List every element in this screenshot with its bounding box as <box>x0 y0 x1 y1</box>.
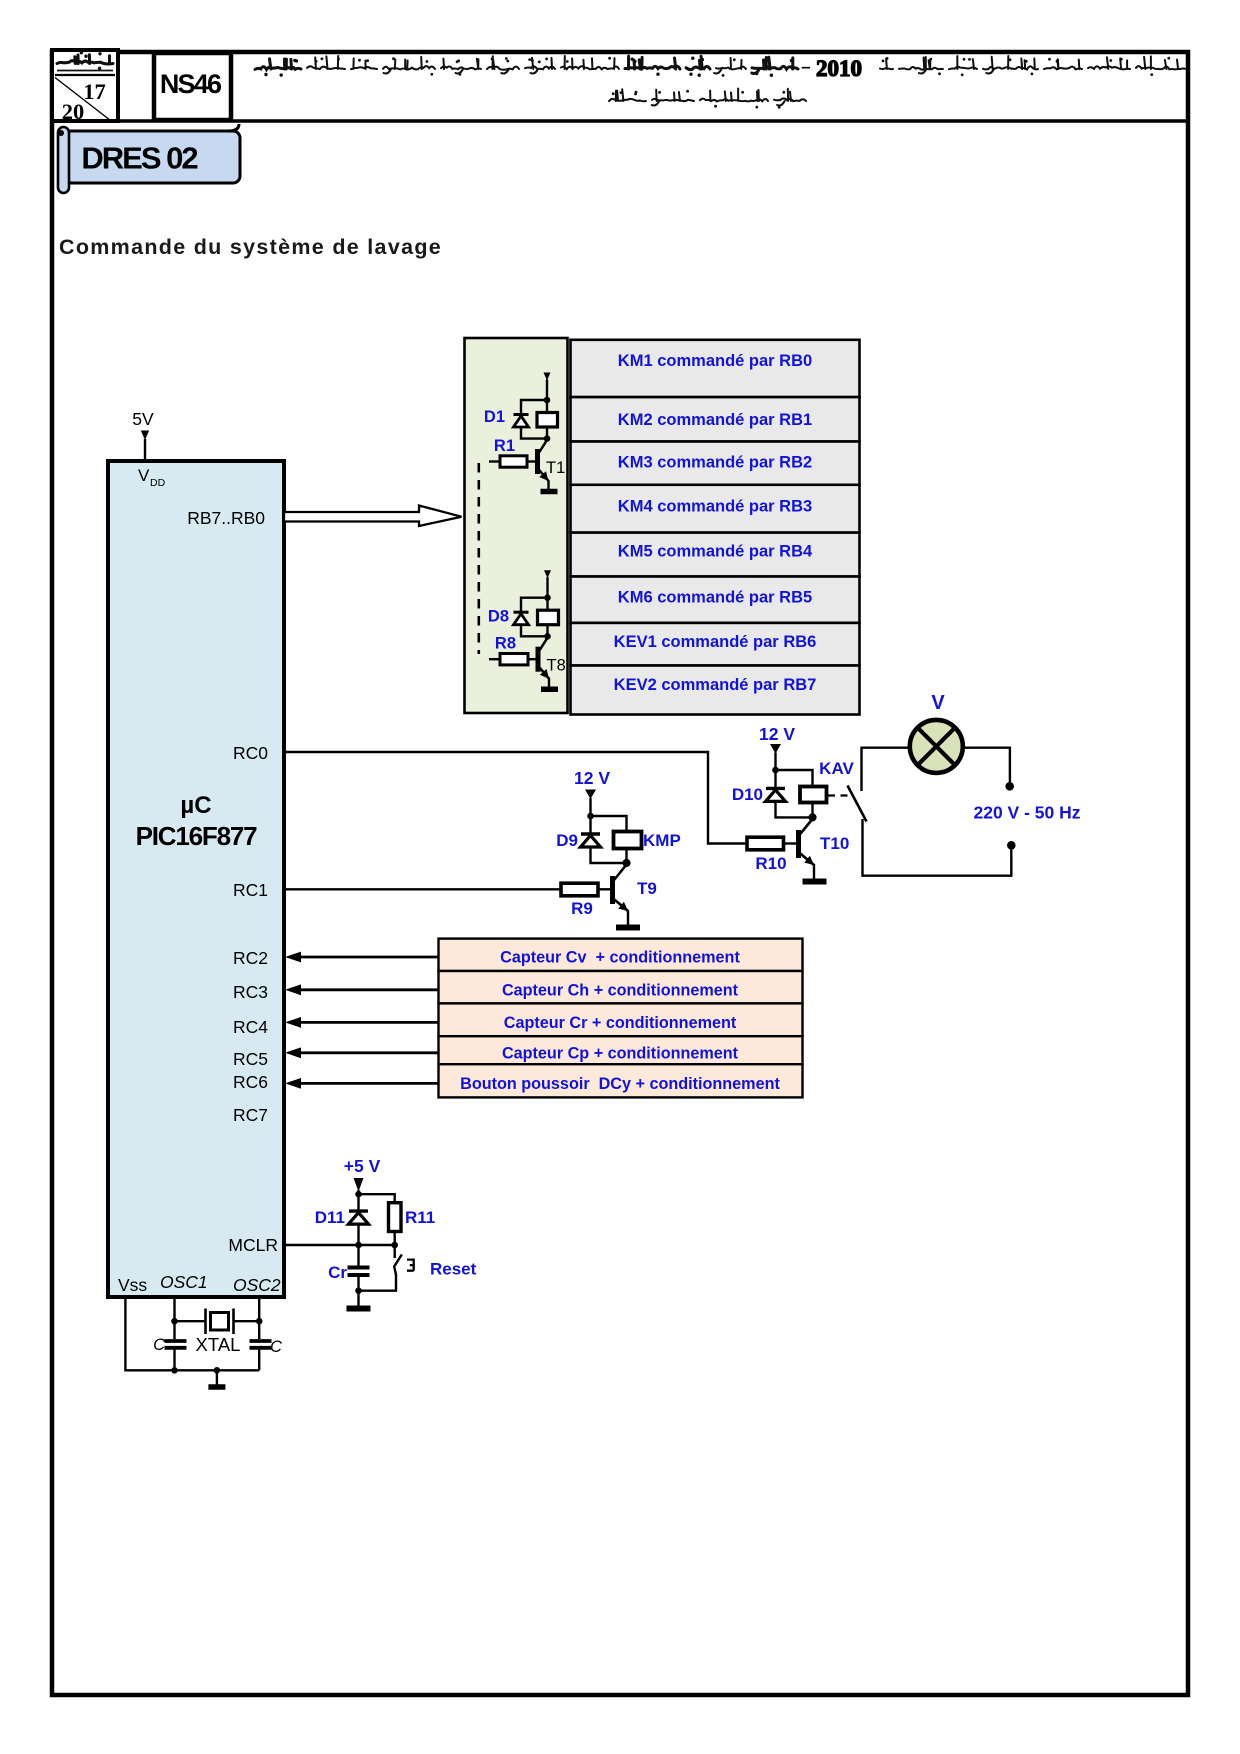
node above coil KEV <box>544 594 551 601</box>
relay coil KMP <box>614 832 642 849</box>
svg-text:RC3: RC3 <box>233 982 268 1002</box>
svg-text:T9: T9 <box>637 879 657 898</box>
relay coil KAV <box>800 787 827 803</box>
exam code box NS46 <box>154 53 231 120</box>
dashed bus continuation <box>477 463 480 654</box>
svg-text:RC6: RC6 <box>233 1072 268 1092</box>
lamp V <box>910 720 963 773</box>
banner DRES 02 <box>228 124 239 131</box>
emitter wire and ground T9 <box>627 910 629 925</box>
wire arrow to RC4 <box>299 1021 439 1024</box>
sensor box 4 <box>439 1036 803 1064</box>
svg-text:OSC2: OSC2 <box>233 1275 281 1295</box>
svg-text:Reset: Reset <box>430 1260 477 1279</box>
svg-text:KM6 commandé par RB5: KM6 commandé par RB5 <box>618 588 812 606</box>
svg-text:DRES 02: DRES 02 <box>81 141 197 176</box>
wire D11 anode to MCLR node <box>357 1223 359 1245</box>
relay table row KEV1 <box>571 623 860 666</box>
relay table row KM2 <box>571 397 860 441</box>
svg-text:MCLR: MCLR <box>228 1235 278 1255</box>
emitter wire and ground T8 <box>548 678 550 689</box>
resistor R9 <box>561 883 598 896</box>
wire Vss down <box>125 1297 164 1370</box>
wire arrow to RC2 <box>299 956 439 959</box>
supply arrow cell1 <box>544 373 551 381</box>
svg-text:DD: DD <box>150 477 166 489</box>
svg-text:12 V: 12 V <box>574 768 610 788</box>
reset switch <box>394 1245 396 1258</box>
crystal XTAL <box>175 1320 206 1322</box>
bus arrow RB7..RB0 <box>284 506 462 527</box>
relay table row KM1 <box>571 340 860 397</box>
supply arrow 12V KMP <box>585 790 596 800</box>
wire Cr bottom to ground <box>357 1275 359 1306</box>
sensor box 2 <box>439 971 803 1003</box>
resistor R1 <box>489 460 500 462</box>
wire arrow to RC5 <box>299 1051 439 1054</box>
wire RC0 to R10 <box>285 752 747 844</box>
node Cr bottom <box>355 1287 362 1294</box>
node 12V KAV <box>772 767 779 774</box>
node coil/collector KAV <box>808 813 816 821</box>
svg-text:RC5: RC5 <box>233 1049 268 1069</box>
relay coil KEV <box>538 610 559 625</box>
node OSC2 <box>256 1318 263 1325</box>
node OSC1 <box>171 1318 178 1325</box>
svg-text:KAV: KAV <box>819 759 854 778</box>
diode D8 <box>514 611 529 614</box>
relay table row KEV2 <box>571 666 860 715</box>
svg-text:Capteur Cr + conditionnement: Capteur Cr + conditionnement <box>504 1014 737 1032</box>
wire arrow to RC6 <box>299 1082 439 1085</box>
svg-text:Capteur Cp + conditionnement: Capteur Cp + conditionnement <box>502 1044 739 1062</box>
diode D10 <box>774 770 776 788</box>
transistor T10 <box>796 830 801 858</box>
svg-text:KMP: KMP <box>643 831 681 850</box>
node 12V KMP <box>587 813 594 820</box>
svg-text:RC4: RC4 <box>233 1017 268 1037</box>
wire RC1 to R9 <box>285 888 561 890</box>
svg-text:D9: D9 <box>556 831 578 850</box>
supply arrow cell2 <box>544 570 551 578</box>
wire lamp left to switch <box>862 748 910 791</box>
svg-text:KEV2 commandé par RB7: KEV2 commandé par RB7 <box>614 676 817 694</box>
terminal lower 220V <box>1007 841 1016 850</box>
svg-text:R8: R8 <box>495 635 516 653</box>
wire node to diode D8 <box>521 598 548 612</box>
node coil/collector cell2 <box>544 633 551 640</box>
svg-text:D1: D1 <box>484 408 505 426</box>
diode D1 <box>514 413 529 416</box>
svg-text:T1: T1 <box>546 459 565 477</box>
svg-text:–: – <box>801 57 810 76</box>
svg-text:C: C <box>270 1338 282 1356</box>
wire D9 anode to node <box>591 847 625 863</box>
node ground stem <box>214 1367 221 1374</box>
ground reset <box>347 1306 371 1312</box>
svg-text:Commande du système de lavage: Commande du système de lavage <box>59 235 442 259</box>
svg-text:T10: T10 <box>820 834 849 853</box>
transistor T8 <box>536 647 541 672</box>
svg-text:D10: D10 <box>732 785 763 804</box>
wire lamp right to terminal <box>963 748 1010 783</box>
page number box <box>52 50 118 121</box>
svg-text:NS46: NS46 <box>160 69 222 99</box>
wire OSC1 down <box>173 1297 175 1339</box>
supply arrow +5V <box>354 1178 364 1192</box>
svg-text:KEV1 commandé par RB6: KEV1 commandé par RB6 <box>614 633 817 651</box>
sensor box 5 <box>439 1064 803 1097</box>
svg-text:µC: µC <box>180 792 211 819</box>
svg-text:D8: D8 <box>488 608 509 626</box>
wire D8 anode to node <box>521 624 546 637</box>
node above coil KM1 <box>544 397 551 404</box>
svg-text:KM2 commandé par RB1: KM2 commandé par RB1 <box>618 411 812 429</box>
svg-text:Vss: Vss <box>118 1275 147 1295</box>
resistor R11 <box>389 1203 402 1232</box>
resistor R8 <box>489 658 500 660</box>
relay table row KM6 <box>571 577 860 623</box>
capacitor C (OSC2) <box>250 1339 272 1343</box>
svg-text:20: 20 <box>62 99 85 124</box>
emitter wire and ground T10 <box>813 864 815 879</box>
wire node to KMP coil <box>591 816 627 832</box>
emitter wire and ground T1 <box>547 480 549 491</box>
svg-text:R1: R1 <box>494 437 515 455</box>
svg-text:V: V <box>138 466 150 485</box>
bottom wire caps <box>173 1348 175 1371</box>
wire node to KAV coil <box>776 770 813 787</box>
svg-text:PIC16F877: PIC16F877 <box>136 821 257 851</box>
svg-text:OSC1: OSC1 <box>160 1272 208 1292</box>
sensor box 1 <box>439 939 803 971</box>
svg-text:KM1 commandé par RB0: KM1 commandé par RB0 <box>618 352 812 370</box>
svg-text:Cr: Cr <box>328 1263 347 1282</box>
transistor T9 <box>610 876 615 904</box>
wire D1 anode to node <box>521 426 545 439</box>
svg-text:RC7: RC7 <box>233 1105 268 1125</box>
node MCLR/D11 <box>355 1242 362 1249</box>
svg-text:KM4 commandé par RB3: KM4 commandé par RB3 <box>618 497 812 515</box>
svg-text:Bouton poussoir DCy + conditi: Bouton poussoir DCy + conditionnement <box>460 1075 780 1093</box>
svg-text:R11: R11 <box>405 1208 435 1227</box>
wire D10 anode to node <box>776 801 811 817</box>
header arabic line 1 <box>1136 56 1186 69</box>
node +5V <box>355 1191 362 1198</box>
wire node to diode D1 <box>521 400 547 414</box>
svg-text:KM3 commandé par RB2: KM3 commandé par RB2 <box>618 453 812 471</box>
wire switch to node <box>359 1274 397 1291</box>
sensor box 3 <box>439 1003 803 1036</box>
svg-text:R9: R9 <box>571 899 593 918</box>
node bottom OSC1 <box>171 1367 178 1374</box>
node R11 bottom <box>391 1242 398 1249</box>
svg-text:Capteur Cv + conditionnement: Capteur Cv + conditionnement <box>500 949 740 967</box>
capacitor C (OSC1) <box>165 1339 187 1343</box>
header arabic line 2 <box>774 89 806 106</box>
svg-text:220 V - 50 Hz: 220 V - 50 Hz <box>974 803 1081 823</box>
ground XTAL <box>216 1370 218 1385</box>
svg-text:T8: T8 <box>547 657 566 675</box>
svg-text:12 V: 12 V <box>759 724 795 744</box>
wire MCLR <box>285 1244 359 1246</box>
svg-text:KM5 commandé par RB4: KM5 commandé par RB4 <box>618 542 813 560</box>
svg-text:XTAL: XTAL <box>196 1334 241 1355</box>
switch contact KAV <box>848 786 867 822</box>
relay table row KM5 <box>571 533 860 577</box>
svg-text:V: V <box>931 692 945 714</box>
svg-text:RC0: RC0 <box>233 743 268 763</box>
wire node to R11 top <box>359 1194 395 1203</box>
node coil/collector <box>544 435 551 442</box>
svg-text:RC2: RC2 <box>233 948 268 968</box>
transistor T1 <box>535 449 540 474</box>
svg-text:2010: 2010 <box>816 56 862 81</box>
driver block <box>465 338 568 713</box>
supply arrow 12V KAV <box>770 744 781 754</box>
terminal upper 220V <box>1005 782 1014 791</box>
dashed mechanical link KAV <box>828 794 852 796</box>
relay table row KM4 <box>571 485 860 533</box>
svg-text:5V: 5V <box>132 409 154 429</box>
svg-text:C: C <box>153 1336 165 1354</box>
svg-text:R10: R10 <box>755 854 786 873</box>
svg-text:RB7..RB0: RB7..RB0 <box>187 508 265 528</box>
svg-text:17: 17 <box>83 79 106 104</box>
diode D9 <box>589 816 591 834</box>
svg-text:RC1: RC1 <box>233 880 268 900</box>
svg-text:D11: D11 <box>315 1208 345 1227</box>
relay coil KM1 <box>537 413 558 428</box>
wire lower terminal to switch <box>863 819 1012 876</box>
node coil/collector KMP <box>622 859 630 867</box>
diode D11 <box>357 1194 359 1211</box>
microcontroller U1 PIC16F877 <box>108 461 284 1297</box>
resistor R10 <box>747 837 784 850</box>
wire OSC2 down <box>258 1297 260 1339</box>
relay table row KM3 <box>571 442 860 485</box>
wire MCLR node to switch <box>359 1244 395 1246</box>
wire arrow to RC3 <box>299 988 439 991</box>
svg-text:Capteur Ch + conditionnement: Capteur Ch + conditionnement <box>502 981 739 999</box>
capacitor Cr <box>357 1245 359 1268</box>
svg-text:+5 V: +5 V <box>344 1156 381 1176</box>
